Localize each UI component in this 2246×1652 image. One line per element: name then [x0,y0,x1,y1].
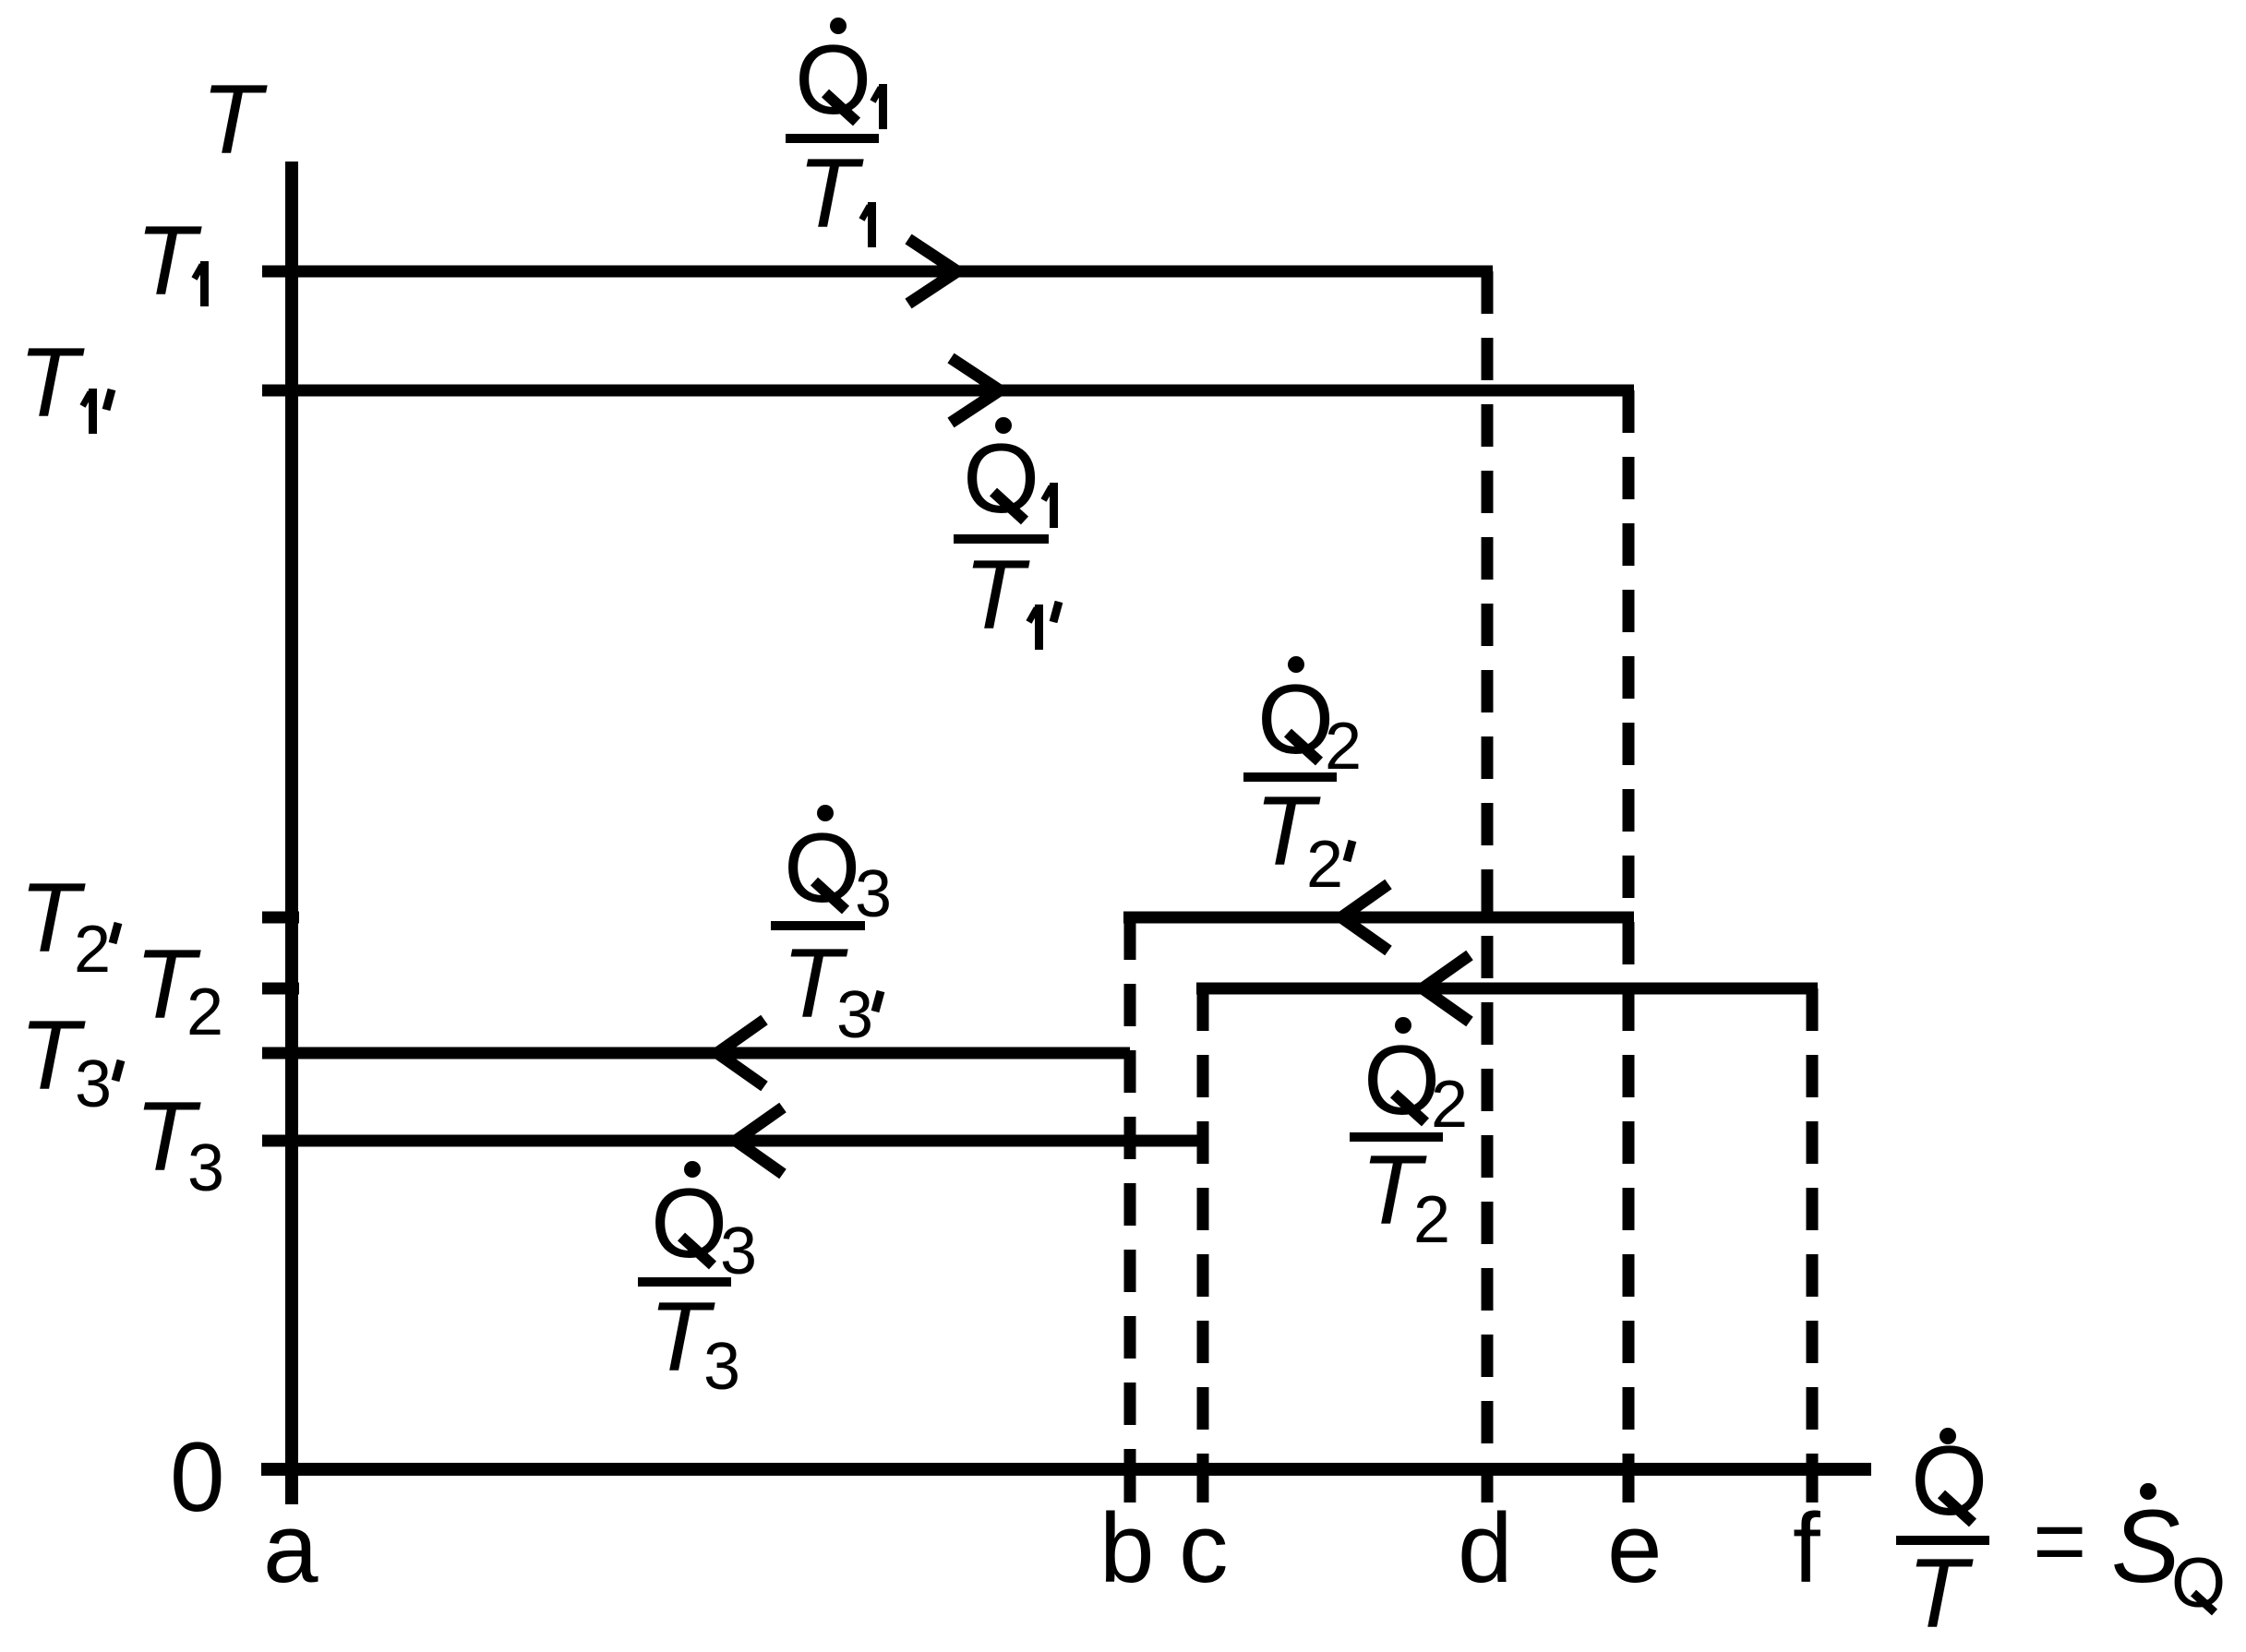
T2' axis tick [262,912,299,924]
svg-text:2: 2 [74,913,111,987]
svg-text:e: e [1607,1492,1663,1603]
svg-text:0: 0 [170,1421,225,1532]
fraction Q1/T1' below T1' line [995,417,1012,434]
S_Q entropy flow symbol [2140,1483,2156,1500]
dashed vertical c [1197,988,1209,1469]
svg-text:3: 3 [75,1047,112,1121]
T3' arrow left [717,1020,764,1086]
T3' isotherm line (axis to b) [262,1047,1130,1059]
axis tick below b [1124,1464,1136,1502]
dashed vertical b [1124,917,1136,1469]
x-axis label fraction Q/T [1940,1428,1956,1444]
svg-text:f: f [1793,1492,1820,1603]
axis tick below f [1807,1464,1819,1502]
svg-text:O: O [963,423,1039,533]
svg-text:O: O [795,24,871,135]
T1 arrow right [908,239,957,304]
svg-text:2: 2 [1413,1183,1450,1257]
dashed vertical f [1807,988,1819,1469]
T3 arrow left [736,1107,783,1174]
svg-text:O: O [1257,664,1334,774]
svg-text:3: 3 [855,857,892,931]
x-axis (Q/T axis) [261,1463,1871,1476]
dashed vertical e [1623,390,1635,1469]
T2 arrow left [1423,955,1470,1022]
svg-text:O: O [651,1167,727,1278]
T2' arrow left [1341,884,1388,951]
svg-text:2: 2 [186,976,223,1049]
svg-text:3: 3 [836,978,873,1052]
fraction Q2/T2 below T2 line [1395,1017,1411,1034]
axis tick below d [1482,1464,1494,1502]
svg-text:3: 3 [187,1131,224,1205]
svg-text:O: O [1911,1425,1988,1536]
svg-text:=: = [2033,1490,2086,1593]
svg-text:O: O [784,812,860,923]
svg-text:c: c [1179,1492,1229,1603]
svg-text:2: 2 [1431,1068,1468,1142]
axis tick below c [1197,1464,1209,1502]
svg-text:T: T [18,327,85,437]
dashed vertical d [1482,271,1494,1469]
svg-text:b: b [1099,1492,1155,1603]
svg-text:O: O [2171,1544,2226,1622]
T2 axis tick [262,983,299,995]
svg-text:T: T [136,205,202,316]
axis tick below e [1623,1464,1635,1502]
svg-text:T: T [201,64,268,174]
fraction Q2/T2' above T2' line [1288,656,1304,673]
T2 isotherm line (c to f) [1196,983,1818,995]
svg-text:T: T [1907,1538,1974,1648]
svg-text:a: a [263,1492,318,1603]
svg-text:S: S [2111,1489,2180,1604]
fraction Q3/T3' above T3' line [817,805,834,821]
fraction Q1/T1 above T1 line [830,18,847,34]
y-axis (T axis) [285,162,298,1504]
svg-text:2: 2 [1306,828,1343,902]
svg-text:T: T [798,138,864,248]
svg-text:T: T [964,539,1030,650]
T1' isotherm line with tick [262,385,1634,397]
T2' isotherm line (b to e) [1123,912,1634,924]
T1' arrow right [951,358,1000,423]
svg-text:3: 3 [703,1330,740,1404]
fraction Q3/T3 below T3 line [684,1161,701,1178]
svg-text:d: d [1458,1492,1513,1603]
T1 isotherm line with tick [262,266,1493,278]
T3 isotherm line (axis to c) [262,1135,1203,1147]
svg-text:O: O [1363,1024,1440,1135]
